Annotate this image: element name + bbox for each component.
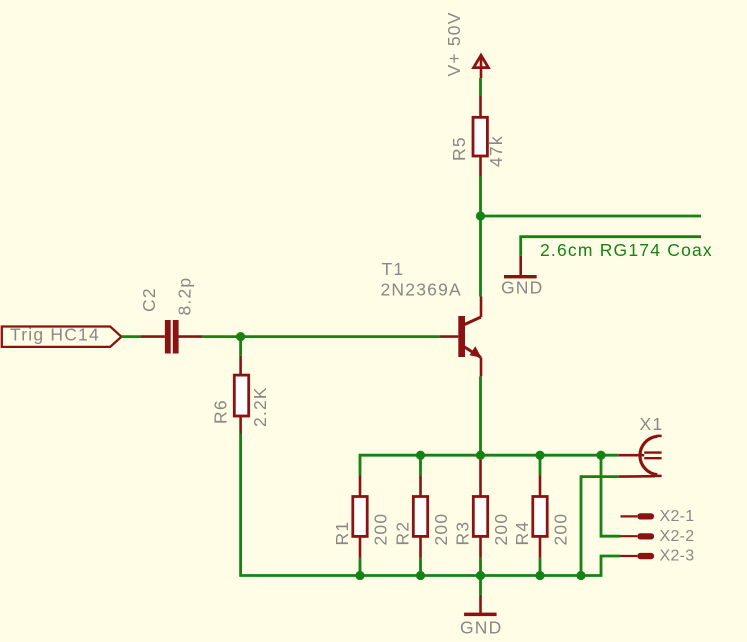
wire bottom rail to GND — [479, 576, 482, 595]
svg-text:X2-2: X2-2 — [660, 528, 695, 545]
wire junction to R6 — [239, 337, 242, 356]
svg-text:R2: R2 — [393, 521, 413, 546]
node bottom rail junctions — [355, 571, 364, 580]
resistor R6 — [234, 356, 248, 434]
wire junction to right edge — [481, 215, 702, 218]
svg-text:200: 200 — [551, 513, 571, 546]
node collector junction — [476, 211, 485, 220]
svg-text:R4: R4 — [512, 521, 532, 546]
svg-text:200: 200 — [371, 513, 391, 546]
svg-text:8.2p: 8.2p — [175, 277, 195, 316]
wire X1 shield — [581, 477, 619, 576]
svg-text:T1: T1 — [382, 259, 405, 279]
wire coax stub — [521, 237, 701, 256]
wire C2 to base — [202, 335, 440, 338]
ground (coax shield) — [504, 256, 537, 279]
emitter arrow — [470, 346, 482, 358]
resistor R1 — [353, 476, 367, 576]
svg-text:GND: GND — [501, 278, 544, 298]
connector pin X2-1 — [621, 513, 655, 519]
svg-text:47k: 47k — [486, 135, 506, 167]
resistor R3 — [473, 455, 487, 575]
svg-text:2.2K: 2.2K — [250, 386, 270, 427]
collector pin — [480, 297, 483, 318]
flag Trig HC14 — [2, 327, 122, 347]
wire emitter to top rail — [479, 376, 482, 455]
svg-text:C2: C2 — [139, 287, 159, 312]
wire flag to C2 — [121, 335, 141, 338]
connector pin X2-2 — [621, 533, 655, 539]
wire R6 to bottom rail — [241, 434, 621, 576]
node base junction — [236, 332, 245, 341]
base bar — [458, 316, 465, 357]
svg-text:R1: R1 — [332, 521, 352, 546]
svg-text:X1: X1 — [640, 414, 664, 434]
resistor R2 — [413, 455, 427, 575]
connector X1 — [619, 436, 662, 477]
svg-text:R6: R6 — [211, 399, 231, 424]
wire R5 to junction — [479, 176, 482, 216]
collector diagonal — [465, 317, 482, 325]
svg-text:Trig HC14: Trig HC14 — [10, 325, 100, 345]
supply symbol V+ — [474, 55, 489, 78]
capacitor C2 — [141, 320, 202, 354]
wire top rail — [360, 455, 619, 475]
base pin — [440, 335, 458, 338]
svg-text:X2-3: X2-3 — [660, 548, 695, 565]
resistor R5 — [473, 96, 487, 176]
svg-text:X2-1: X2-1 — [660, 508, 695, 525]
svg-text:200: 200 — [491, 513, 511, 546]
transistor Q T1 2N2369A — [440, 297, 482, 377]
wire junction down to collector — [479, 216, 482, 297]
svg-text:200: 200 — [431, 513, 451, 546]
resistor R4 — [533, 455, 547, 575]
ground GND (bottom) — [464, 595, 497, 616]
node top rail junctions — [416, 451, 425, 460]
svg-text:2.6cm RG174 Coax: 2.6cm RG174 Coax — [540, 240, 713, 260]
emitter diagonal — [465, 347, 482, 358]
wire V+ to R5 — [479, 78, 482, 96]
svg-text:R5: R5 — [449, 136, 469, 161]
wire X2-2 branch — [601, 455, 621, 536]
svg-text:GND: GND — [460, 618, 503, 638]
connector pin X2-3 — [621, 553, 655, 559]
emitter pin — [480, 358, 483, 377]
svg-text:2N2369A: 2N2369A — [381, 279, 462, 299]
svg-text:R3: R3 — [453, 521, 473, 546]
svg-text:V+ 50V: V+ 50V — [444, 11, 464, 76]
